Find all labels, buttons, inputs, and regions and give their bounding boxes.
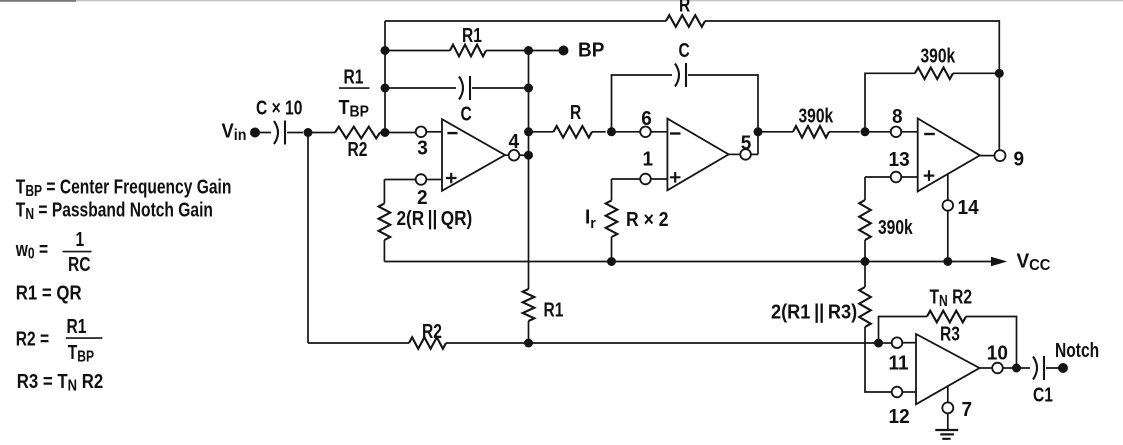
svg-text:C: C (461, 103, 472, 125)
node J1 junction dot (304, 128, 313, 137)
pin 6 open circle (640, 127, 651, 138)
svg-text:5: 5 (741, 132, 752, 155)
wire U4 lower edge to pin 7 (947, 386, 949, 403)
wire capacitor to node J1 (287, 132, 303, 134)
svg-text:RC: RC (68, 253, 91, 275)
equation TBP = Center Frequency Gain (16, 175, 232, 199)
pin 9 label (1014, 148, 1025, 171)
resistor R label (679, 0, 690, 16)
junction dot node F (874, 339, 883, 348)
svg-text:12: 12 (889, 406, 910, 429)
pin 2 open circle (416, 174, 427, 185)
pin 14 label (958, 196, 979, 219)
2(R1 || R3) value label (771, 302, 857, 324)
resistor 390k feedback of U3 (865, 73, 915, 132)
wire node A vertical (384, 21, 386, 133)
Ir current label (585, 206, 596, 232)
svg-text:R: R (679, 0, 690, 16)
svg-text:TBP = Center Frequency Gain: TBP = Center Frequency Gain (16, 175, 232, 199)
U1 plus sign (446, 173, 457, 184)
VCC arrowhead (991, 257, 1007, 266)
resistor R3 feedback of U4 (879, 317, 928, 344)
U2 minus sign (670, 132, 681, 134)
svg-text:7: 7 (962, 398, 973, 421)
junction dot node G (1012, 364, 1021, 373)
pin 8 open circle (891, 127, 902, 138)
390k feedback value label (921, 45, 956, 67)
pin 12 label (889, 406, 910, 429)
resistor 390k between U2 and U3 (758, 131, 793, 133)
junction dot node D (754, 127, 763, 136)
pin 13 open circle (891, 172, 902, 183)
junction dot rail at 390k vertical (861, 257, 870, 266)
svg-text:10: 10 (987, 342, 1008, 365)
wire U1 output to pin 4 (505, 154, 509, 156)
R x 2 value label (626, 208, 669, 230)
wire pin 1 to U2 (651, 178, 668, 180)
resistor 2(R1 || R3) from rail to pin 12 (864, 262, 866, 288)
svg-text:Vin: Vin (222, 121, 247, 144)
R1 value label (462, 24, 482, 46)
pin 4 open circle (509, 150, 520, 161)
wire pin 1 row (612, 178, 641, 180)
svg-text:R2: R2 (348, 138, 368, 160)
pin 14 open circle (943, 200, 954, 211)
svg-text:2: 2 (417, 186, 428, 209)
pin 3 label (417, 137, 428, 160)
R3 designator label (940, 323, 960, 345)
pin 1 open circle (640, 174, 651, 185)
ground symbol (935, 430, 958, 439)
op-amp U1 triangle (442, 119, 505, 191)
junction dot node B at R row (524, 127, 533, 136)
svg-text:1: 1 (643, 148, 654, 171)
equation w0 = 1/RC (15, 238, 48, 262)
wire node E to pin 8 (865, 131, 891, 133)
svg-text:TBP: TBP (339, 97, 370, 121)
U1 minus sign (447, 132, 457, 134)
svg-text:R1: R1 (344, 66, 364, 88)
capacitor C feedback of U1 (385, 87, 456, 89)
svg-text:R2 =: R2 = (16, 328, 49, 350)
U3 minus sign (924, 133, 935, 135)
svg-text:2(R || QR): 2(R || QR) (397, 207, 473, 230)
capacitor C x 10 (274, 121, 278, 144)
equation TN = Passband Notch Gain (16, 199, 213, 223)
pin 12 open circle (892, 387, 903, 398)
svg-text:C × 10: C × 10 (256, 97, 302, 119)
pin 13 label (889, 149, 910, 172)
wire pin 2 from resistor column (384, 179, 415, 181)
svg-text:R2: R2 (422, 320, 442, 342)
wire pin 8 to U3 (901, 131, 917, 133)
wire U2 output to pin 5 (729, 153, 741, 155)
C value label (461, 103, 472, 125)
390k vertical value label (878, 216, 913, 238)
390k value label (799, 105, 834, 127)
svg-text:TN R2: TN R2 (930, 286, 973, 310)
junction dot U3 output column (995, 69, 1004, 78)
wire pin 4 to node B (519, 154, 528, 156)
svg-text:R1: R1 (544, 299, 564, 321)
pin 5 open circle (740, 149, 751, 160)
wire Vin to capacitor C x 10 (259, 132, 271, 134)
wire pin 14 from U3 lower edge (947, 174, 949, 200)
svg-text:w0 =: w0 = (15, 238, 48, 262)
svg-text:C1: C1 (1033, 384, 1053, 406)
svg-text:Ir: Ir (585, 206, 596, 232)
svg-text:R3: R3 (940, 323, 960, 345)
junction dot node B at bottom wire (524, 339, 533, 348)
svg-text:11: 11 (889, 352, 909, 375)
resistor 2(R||QR) to rail (383, 180, 385, 204)
pin 4 label (509, 130, 520, 153)
pin 9 open circle (995, 150, 1006, 161)
pin 7 label (962, 398, 973, 421)
Notch label (1055, 339, 1099, 361)
op-amp U4 triangle (916, 334, 980, 404)
junction dot node A at input row (381, 128, 390, 137)
resistor R x 2 to rail (611, 179, 613, 200)
svg-text:TBP: TBP (68, 341, 94, 365)
pin 11 open circle (892, 337, 903, 348)
pin 1 label (643, 148, 654, 171)
svg-text:R1: R1 (67, 315, 87, 337)
pin 5 label (741, 132, 752, 155)
terminal BP dot (559, 46, 569, 56)
svg-text:8: 8 (892, 106, 903, 129)
svg-text:1: 1 (76, 228, 85, 250)
svg-text:BP: BP (578, 39, 604, 62)
BP label (578, 39, 604, 62)
svg-text:R: R (570, 101, 581, 123)
svg-text:14: 14 (958, 196, 979, 219)
pin 3 open circle (416, 127, 427, 138)
wire pin 11 to U4 (902, 342, 916, 344)
wire pin 10 to node G (1003, 367, 1017, 369)
R2 value label (348, 138, 368, 160)
wire node J1 down to bottom row (307, 133, 309, 344)
wire pin 12 to U4 (902, 391, 916, 393)
svg-text:9: 9 (1014, 148, 1025, 171)
svg-text:3: 3 (417, 137, 428, 160)
equation R2 = R1/TBP (16, 328, 49, 350)
pin 10 open circle (992, 363, 1003, 374)
wire pin 13 row (865, 176, 891, 178)
op-amp U2 triangle (667, 119, 728, 191)
fraction label R1 over TBP (344, 66, 364, 88)
R2 bottom value label (422, 320, 442, 342)
junction dot node E (861, 127, 870, 136)
wire top feedback from node A to op-amp U3 output column (385, 20, 666, 22)
page top border (0, 0, 1123, 1)
svg-text:390k: 390k (799, 105, 834, 127)
wire VCC rail (384, 261, 991, 263)
svg-text:390k: 390k (921, 45, 956, 67)
wire node C to pin 6 (612, 131, 641, 133)
resistor R between U1 and U2 (529, 131, 554, 133)
wire pin 13 to U3 (901, 176, 917, 178)
op-amp U3 triangle (918, 118, 980, 191)
resistor 390k vertical to rail (864, 177, 866, 200)
svg-text:2(R1 || R3): 2(R1 || R3) (771, 302, 857, 324)
wire pin 14 to rail (947, 211, 949, 262)
pin 2 label (417, 186, 428, 209)
pin 6 label (641, 108, 652, 131)
wire U3 output to pin 9 (980, 155, 995, 157)
Vin label (222, 121, 247, 144)
junction dot rail at R x 2 (607, 257, 616, 266)
equation R1 = QR (16, 281, 82, 304)
pin 10 label (987, 342, 1008, 365)
pin 7 open circle (942, 402, 953, 413)
wire bottom row to pin 11 (879, 342, 892, 344)
svg-text:4: 4 (509, 130, 520, 153)
svg-text:R1 = QR: R1 = QR (16, 281, 82, 304)
svg-text:Notch: Notch (1055, 339, 1099, 361)
2(R || QR) value label (397, 207, 473, 230)
R value label (570, 101, 581, 123)
wire pin 5 to node D (751, 153, 758, 155)
junction dot rail at pin 14 (943, 257, 952, 266)
junction dot BP column at R1 row (524, 46, 533, 55)
wire pin 7 to ground (947, 413, 949, 429)
wire R1 row to BP terminal (529, 50, 564, 52)
resistor R1 feedback of U1 (385, 50, 450, 52)
capacitor C1 to notch (1017, 367, 1031, 369)
C x 10 value label (256, 97, 302, 119)
svg-text:C: C (679, 39, 690, 61)
wire pin 2 to U1 (426, 179, 442, 181)
U3 plus sign (924, 170, 935, 181)
svg-text:R × 2: R × 2 (626, 208, 669, 230)
terminal Vin dot (250, 128, 260, 138)
U2 plus sign (670, 172, 681, 183)
C feedback value label (679, 39, 690, 61)
junction dot node B at output row (524, 151, 533, 160)
TN R2 value label (930, 286, 973, 310)
wire node B vertical with resistor R1 (528, 51, 530, 290)
wire pin 6 to U2 (651, 131, 668, 133)
resistor R2 input (308, 132, 335, 134)
wire pin 3 to U1 (426, 131, 442, 133)
junction dot node C (607, 127, 616, 136)
terminal Notch dot (1058, 363, 1068, 373)
equation R3 = TN R2 (17, 370, 103, 395)
svg-text:R3 = TN R2: R3 = TN R2 (17, 370, 103, 395)
svg-text:TN = Passband Notch Gain: TN = Passband Notch Gain (16, 199, 213, 223)
junction dot node A at C row (381, 84, 390, 93)
svg-text:13: 13 (889, 149, 910, 172)
pin 8 label (892, 106, 903, 129)
capacitor C feedback of U2 (612, 75, 673, 132)
resistor R2 bottom (308, 342, 409, 344)
C1 value label (1033, 384, 1053, 406)
svg-text:R1: R1 (462, 24, 482, 46)
svg-text:VCC: VCC (1017, 250, 1051, 274)
pin 11 label (889, 352, 909, 375)
junction dot node A at R1 row (381, 46, 390, 55)
VCC label (1017, 250, 1051, 274)
junction dot BP column at C row (524, 84, 533, 93)
svg-text:390k: 390k (878, 216, 913, 238)
wire U4 output to pin 10 (980, 367, 993, 369)
svg-text:6: 6 (641, 108, 652, 131)
R1 vertical value label (544, 299, 564, 321)
